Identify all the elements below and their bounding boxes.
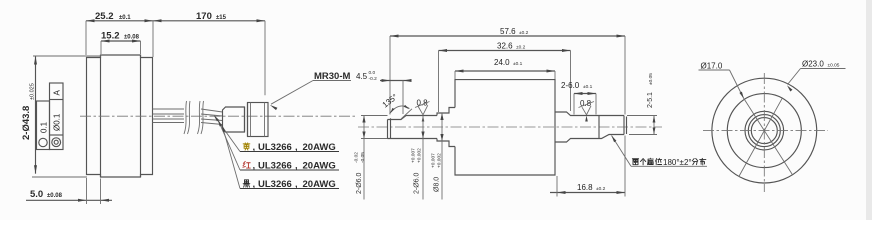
wire label black UL3266 20AWG: [243, 180, 250, 187]
svg-text:+0.002: +0.002: [437, 153, 443, 168]
svg-text:-0.02: -0.02: [354, 152, 360, 163]
svg-text:0.0: 0.0: [369, 70, 376, 76]
leader to red wire: [219, 121, 241, 170]
GD&T frame circularity 0.1: [37, 101, 50, 150]
wire label red UL3266 20AWG: [243, 161, 250, 168]
dimension 24.0 +-0.1: [455, 70, 555, 72]
svg-text:57.6: 57.6: [500, 27, 516, 36]
dimension 15.2 +-0.08 (can length): [101, 40, 141, 42]
dimension 32.6 +-0.2: [439, 50, 571, 52]
svg-text:±0.08: ±0.08: [47, 193, 63, 199]
motor body side view: [87, 55, 153, 177]
svg-text:0.1: 0.1: [40, 121, 49, 133]
svg-text:Ø8.0: Ø8.0: [434, 177, 441, 192]
svg-text:4.5: 4.5: [356, 72, 368, 81]
spoke line through center (61 deg): [739, 98, 782, 176]
leader to black wire: [223, 127, 241, 189]
svg-text:±0.1: ±0.1: [583, 84, 593, 90]
svg-text:-0.2: -0.2: [369, 76, 378, 82]
vertical label 2-Ø6.0 -0.02/-0.05 with dim line: [363, 116, 365, 200]
svg-text:2-Ø6.0: 2-Ø6.0: [356, 172, 363, 194]
svg-text:±0.2: ±0.2: [519, 30, 529, 36]
svg-text:±0.05: ±0.05: [648, 73, 654, 85]
vertical label Ø8.0 +0.007/+0.002 with dim line: [441, 113, 443, 200]
dimension 170 +-15 (lead wire length): [153, 20, 265, 22]
svg-text:+0.007: +0.007: [431, 153, 437, 168]
svg-text:Ø0.1: Ø0.1: [53, 113, 62, 131]
connector MR30 barrel 1: [223, 107, 245, 132]
svg-text:Ø17.0: Ø17.0: [701, 62, 723, 71]
rotor centerline: [358, 126, 662, 128]
svg-text:2-6.0: 2-6.0: [561, 81, 580, 90]
svg-text:32.6: 32.6: [497, 42, 513, 51]
horizontal centerline: [703, 130, 828, 132]
svg-text:±0.08: ±0.08: [124, 35, 140, 41]
lead wires: [153, 108, 185, 110]
dimension 5.0 +-0.08 (rear cap length): [26, 199, 112, 201]
spoke line through center (122 deg): [744, 98, 793, 175]
svg-text:-0.05: -0.05: [360, 152, 366, 163]
connector MR30 barrel 2: [248, 103, 269, 137]
svg-text:±15: ±15: [216, 15, 227, 21]
svg-text:24.0: 24.0: [494, 58, 510, 67]
wire break marks: [184, 101, 187, 134]
dimension 2-5.1 +-0.05 (across flats, vertical): [653, 116, 655, 135]
svg-text:16.8: 16.8: [577, 183, 593, 192]
svg-text:±0.05: ±0.05: [828, 63, 840, 69]
svg-text:+0.002: +0.002: [417, 148, 423, 163]
svg-text:5.0: 5.0: [30, 189, 43, 200]
svg-text:±0.1: ±0.1: [119, 15, 131, 21]
svg-text:±0.025: ±0.025: [30, 83, 36, 100]
shaft flat boundary line: [598, 116, 600, 139]
hub circles: [745, 111, 784, 150]
svg-text:±0.1: ±0.1: [513, 61, 523, 67]
leader to yellow wire: [215, 116, 241, 152]
leader note two flats 180+-2 distributed: [612, 136, 632, 167]
svg-text:2-5.1: 2-5.1: [647, 92, 654, 108]
end view outer circle Ø23: [712, 78, 817, 183]
svg-text:180°±2°: 180°±2°: [663, 158, 692, 167]
svg-text:+0.007: +0.007: [411, 148, 417, 163]
dimension 2-Ø43.8 +-0.025 (motor diameter, vertical): [35, 56, 37, 174]
svg-text:A: A: [53, 90, 62, 96]
connector divider: [244, 107, 246, 132]
rotor shaft outline: [387, 120, 389, 139]
dimension 16.8 +-0.2: [550, 192, 625, 194]
lead wires after break: [201, 109, 223, 112]
svg-text:Ø23.0: Ø23.0: [802, 60, 824, 69]
svg-text:25.2: 25.2: [95, 11, 114, 22]
svg-text:15.2: 15.2: [101, 31, 120, 42]
wire label yellow UL3266 20AWG: [243, 143, 250, 150]
motor centerline: [80, 115, 355, 117]
scan page edge shading right: [866, 0, 872, 220]
dimension 25.2 +-0.1 (motor length): [86, 20, 153, 22]
svg-text:2-Ø6.0: 2-Ø6.0: [414, 172, 421, 194]
dimension 57.6 +-0.2: [390, 35, 625, 37]
svg-text:±0.2: ±0.2: [596, 186, 606, 192]
svg-text:170: 170: [196, 11, 212, 22]
svg-text:2-Ø43.8: 2-Ø43.8: [21, 106, 32, 140]
right shaft end faces: [623, 116, 625, 135]
GD&T frame concentricity Ø0.1 A: [50, 83, 64, 150]
end view circle Ø17: [727, 94, 801, 168]
vertical centerline: [763, 73, 765, 192]
svg-text:±0.2: ±0.2: [516, 45, 526, 51]
